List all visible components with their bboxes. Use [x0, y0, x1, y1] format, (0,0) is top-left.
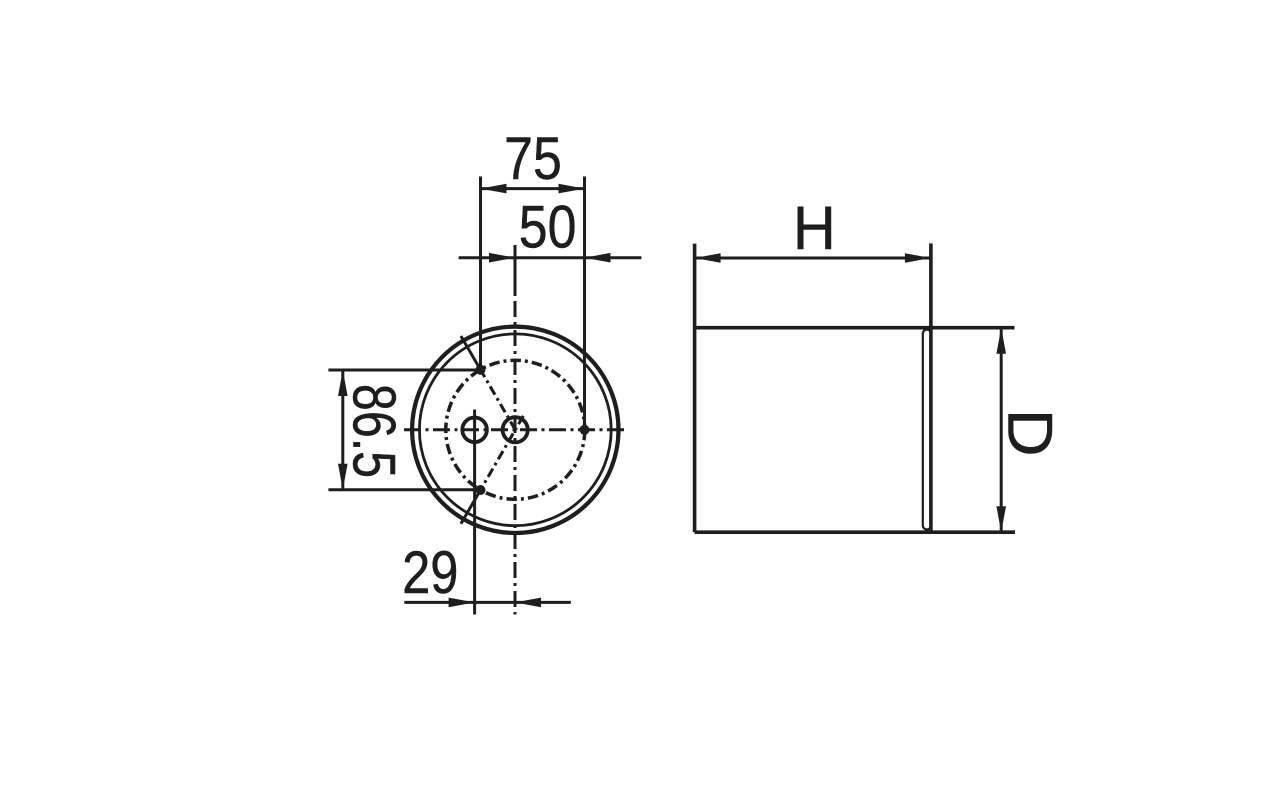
75 arrow right — [559, 184, 585, 194]
29 dimension line — [404, 601, 571, 604]
side view top edge + D extension — [695, 326, 1015, 330]
spoke to bottom-left hole (dash-dot) — [481, 416, 524, 490]
spoke overshoot top-left (solid) — [461, 336, 481, 370]
D arrow bottom — [996, 506, 1006, 532]
spoke to top-left hole (dash-dot) — [481, 370, 516, 430]
H arrow right — [905, 253, 931, 263]
50 arrow left (outside) — [489, 253, 515, 263]
side view bottom edge + D extension — [695, 530, 1015, 534]
bolt circle (dash-dot) — [446, 360, 585, 499]
50 dimension line — [459, 256, 642, 259]
H dimension line — [695, 257, 931, 260]
center small hole — [503, 417, 528, 442]
left small hole — [462, 418, 487, 443]
bolt point top-left — [476, 365, 486, 375]
vertical centerline (dash-dot) — [514, 293, 517, 615]
seam slot near right edge — [923, 330, 931, 530]
outer circle (front view) — [412, 327, 618, 533]
75 arrow left — [481, 184, 507, 194]
side view left edge + H extension — [693, 244, 697, 533]
75 dim left extension line — [479, 177, 482, 370]
vertical centerline solid extension — [514, 245, 517, 293]
75/50 dim right extension line — [583, 177, 586, 430]
75 dimension line — [481, 187, 585, 190]
side view right edge + H extension — [929, 243, 933, 532]
svg-text:86.5: 86.5 — [340, 384, 408, 478]
bolt point right — [580, 425, 590, 435]
horizontal centerline — [404, 428, 627, 431]
H arrow left — [695, 253, 721, 263]
86.5 arrow bottom — [338, 464, 348, 490]
29 arrow right (outside) — [515, 598, 541, 608]
86.5 bottom extension line — [328, 488, 482, 491]
bolt point bottom-left — [476, 485, 486, 495]
left hole vertical line / 29 extension — [473, 410, 476, 615]
86.5 top extension line — [328, 369, 480, 372]
D dimension line — [1000, 328, 1003, 533]
D arrow top — [996, 328, 1006, 354]
svg-text:D: D — [995, 409, 1065, 457]
86.5 dimension line — [341, 370, 344, 490]
svg-text:H: H — [793, 193, 836, 262]
svg-text:29: 29 — [402, 539, 458, 606]
86.5 arrow top — [338, 370, 348, 396]
50 arrow right (outside) — [585, 253, 611, 263]
29 arrow left (outside) — [449, 598, 475, 608]
spoke overshoot bottom-left (solid) — [461, 490, 481, 524]
inner ring circle — [419, 334, 611, 526]
svg-text:50: 50 — [519, 193, 577, 261]
svg-text:75: 75 — [504, 124, 562, 192]
